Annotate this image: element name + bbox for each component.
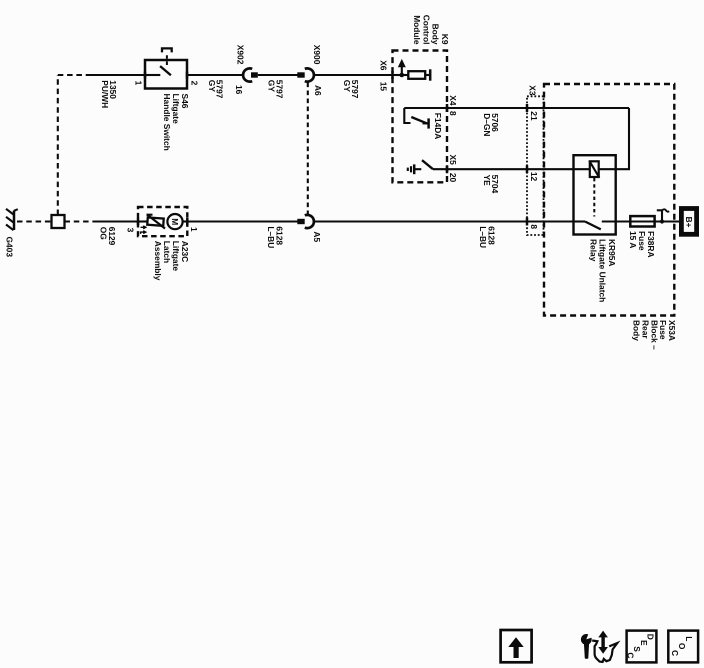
- svg-text:15 A: 15 A: [628, 231, 638, 248]
- BCM X5 ground switch: [408, 160, 433, 174]
- wire label 5706 D-GN: [482, 113, 500, 136]
- pin ticks X4 / X3-21: [447, 104, 527, 112]
- svg-text:1: 1: [189, 227, 199, 232]
- wire dashed ground to splice: [17, 220, 51, 222]
- svg-text:M: M: [170, 218, 180, 225]
- icon DESC box: [626, 631, 657, 663]
- splice box junction: [52, 215, 65, 228]
- A23C label: [153, 241, 190, 281]
- svg-text:X6: X6: [378, 60, 388, 71]
- svg-text:X902: X902: [236, 45, 246, 65]
- wire 5706 D-GN from X4: [404, 107, 629, 109]
- wire S46 to X902: [187, 74, 244, 76]
- svg-text:16: 16: [234, 85, 244, 95]
- svg-text:2: 2: [189, 81, 199, 86]
- wire label 6128 L-BU: [266, 226, 284, 248]
- wire dashed trunk vertical: [57, 75, 59, 215]
- svg-text:PU/WH: PU/WH: [100, 80, 110, 108]
- icon LOC box: [668, 631, 698, 663]
- latch pin ticks: [138, 218, 187, 225]
- svg-text:GY: GY: [267, 80, 277, 93]
- relay plunger dashed: [593, 178, 595, 217]
- wire label 6128 L-BU: [478, 226, 496, 248]
- svg-text:L: L: [684, 636, 694, 641]
- svg-text:Handle Switch: Handle Switch: [162, 94, 172, 151]
- svg-text:X5: X5: [448, 155, 458, 166]
- wire X900 to BCM: [314, 74, 393, 76]
- wire label 5797 GY: [267, 80, 285, 99]
- wire label 5704 YE: [482, 175, 500, 194]
- pin tick X3-8: [526, 218, 529, 226]
- svg-text:O: O: [677, 643, 687, 650]
- pin tick X6: [391, 71, 394, 79]
- connector X900 A6: [297, 68, 314, 81]
- svg-text:Module: Module: [412, 15, 422, 45]
- svg-text:GY: GY: [342, 80, 352, 93]
- wire A5 to relay: [314, 220, 574, 222]
- svg-text:A6: A6: [313, 85, 323, 96]
- switch S46 box: [145, 60, 187, 89]
- svg-text:Body: Body: [632, 320, 642, 341]
- relay label: [588, 239, 616, 302]
- relay switch: [574, 222, 632, 230]
- pin ticks X5 / X3-12: [447, 165, 527, 173]
- svg-text:21: 21: [529, 111, 539, 121]
- wire X902 to X900: [258, 74, 298, 76]
- svg-text:E: E: [639, 640, 649, 646]
- svg-text:C: C: [626, 652, 636, 658]
- wire label 5797 GY: [342, 80, 360, 99]
- clip symbol: [657, 209, 669, 223]
- svg-text:B+: B+: [684, 217, 694, 228]
- svg-text:OG: OG: [98, 227, 108, 240]
- module K9 BCM dashed box: [393, 51, 448, 183]
- ground G403: [6, 209, 18, 230]
- svg-text:X900: X900: [312, 45, 322, 65]
- svg-text:C: C: [670, 650, 680, 656]
- svg-text:X4: X4: [448, 95, 458, 106]
- svg-text:3: 3: [126, 228, 136, 233]
- svg-text:F14DA: F14DA: [433, 113, 443, 140]
- wire label 6129 OG: [98, 227, 117, 246]
- F38RA label: [628, 231, 656, 258]
- relay coil: [589, 161, 599, 178]
- latch motor M: [167, 214, 187, 229]
- wire label 5797 GY: [207, 80, 225, 99]
- wire label 1350 PU/WH: [100, 80, 118, 108]
- svg-text:D: D: [645, 634, 655, 640]
- relay KR95A box: [574, 155, 616, 234]
- connector X3 dotted box: [527, 96, 544, 235]
- svg-text:Relay: Relay: [588, 239, 598, 262]
- svg-text:8: 8: [529, 224, 539, 229]
- wire 5706 corner down to relay coil: [599, 108, 629, 169]
- svg-text:20: 20: [448, 173, 458, 183]
- svg-text:D–GN: D–GN: [482, 113, 492, 136]
- svg-text:L–BU: L–BU: [478, 226, 488, 248]
- fuse F38RA: [630, 216, 654, 226]
- svg-text:L–BU: L–BU: [266, 226, 276, 248]
- K9 BCM label: [412, 15, 450, 45]
- svg-text:S: S: [632, 646, 642, 652]
- fuse block X53A dashed box: [544, 84, 674, 316]
- BCM X6 driver circuit: [393, 59, 431, 81]
- wire relay to B+: [616, 220, 679, 222]
- BCM F14DA switch: [404, 108, 428, 129]
- latch actuator component: [138, 215, 165, 234]
- S46 label: [162, 94, 190, 151]
- S46 switch contacts: [145, 48, 172, 75]
- svg-text:YE: YE: [482, 175, 492, 187]
- svg-text:A5: A5: [312, 231, 322, 242]
- icon up-arrow box: [501, 630, 532, 662]
- svg-text:X3: X3: [527, 85, 537, 96]
- wire dashed trunk horizontal to S46: [58, 74, 91, 76]
- svg-text:12: 12: [529, 172, 539, 182]
- icon wrench-arrow: [581, 631, 617, 662]
- terminal B+: [681, 209, 696, 235]
- svg-text:Assembly: Assembly: [153, 241, 163, 281]
- wire solid to latch pin3: [96, 220, 138, 222]
- latch A23C dashed box: [138, 207, 187, 236]
- svg-text:GY: GY: [207, 80, 217, 93]
- wire 5704 YE from X5: [433, 168, 590, 170]
- connector X900 body dashed: [307, 83, 309, 215]
- S46 pin ticks: [145, 72, 187, 79]
- svg-text:G403: G403: [4, 237, 14, 258]
- connector X900 A5: [297, 215, 314, 228]
- wire bottom-left dashed splice to latch: [65, 220, 97, 222]
- X53A label: [632, 320, 678, 350]
- svg-text:8: 8: [448, 111, 458, 116]
- wire latch to X900 A5: [187, 220, 298, 222]
- wire solid to S46 pin1: [91, 74, 145, 76]
- svg-text:15: 15: [378, 82, 388, 92]
- connector X902: [243, 68, 258, 81]
- svg-text:1: 1: [134, 81, 144, 86]
